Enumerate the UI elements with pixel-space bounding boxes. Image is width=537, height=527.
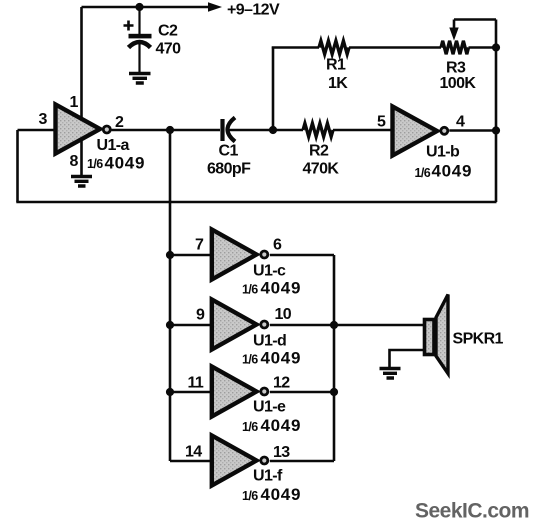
resistor R2 xyxy=(303,123,333,136)
svg-text:C1: C1 xyxy=(219,143,239,160)
wire: to U1-e input xyxy=(170,391,211,394)
capacitor C2 bottom curved plate xyxy=(129,42,151,48)
wire: to R1 xyxy=(272,46,319,49)
capacitor C1 curved plate xyxy=(228,118,236,142)
op-amp U1-d inverter triangle xyxy=(212,300,257,350)
ground: U1-a pin 8 xyxy=(71,177,92,187)
svg-text:11: 11 xyxy=(188,375,204,392)
op-amp U1-e inverter triangle xyxy=(212,367,257,417)
capacitor C2 top plate xyxy=(129,34,152,39)
svg-text:U1-b: U1-b xyxy=(426,144,460,161)
svg-text:12: 12 xyxy=(273,375,290,392)
wire: vertical up to R1 xyxy=(272,47,275,131)
svg-text:9: 9 xyxy=(196,307,205,324)
capacitor C2 lead bottom xyxy=(138,44,140,72)
svg-text:SeekIC.com: SeekIC.com xyxy=(415,500,529,523)
svg-text:U1-a: U1-a xyxy=(97,137,130,154)
wire: pin1 vertical from rail to U1-a xyxy=(80,7,83,118)
wire: bank input bus xyxy=(169,130,172,461)
wire: to U1-d input xyxy=(170,324,211,327)
svg-text:1K: 1K xyxy=(328,75,348,92)
R3 wiper arrowhead xyxy=(449,28,458,41)
wire: R2 to U1-b input xyxy=(333,129,392,132)
wire: junction to R2 xyxy=(273,129,303,132)
svg-text:10: 10 xyxy=(275,306,292,323)
svg-text:4049: 4049 xyxy=(261,349,302,368)
junction: bus / U1-d input xyxy=(166,321,174,329)
supply arrowhead xyxy=(208,2,222,11)
svg-text:U1-c: U1-c xyxy=(253,263,286,280)
svg-text:4049: 4049 xyxy=(261,485,302,504)
svg-text:1: 1 xyxy=(70,94,79,111)
wire: U1-a input from left vertical xyxy=(18,129,55,132)
junction: bus / U1-e input xyxy=(166,388,174,396)
svg-text:R2: R2 xyxy=(309,143,329,160)
junction: bus / U1-c input xyxy=(166,251,174,259)
wire: wiper top to right xyxy=(454,18,496,21)
wire: R1 to R3 xyxy=(349,46,441,49)
svg-text:1/6: 1/6 xyxy=(242,283,258,297)
svg-text:+9–12V: +9–12V xyxy=(227,2,280,19)
svg-text:1/6: 1/6 xyxy=(242,420,258,434)
speaker SPKR1 cone xyxy=(436,295,448,374)
junction: U1-b output / right vertical xyxy=(492,126,500,134)
svg-text:R3: R3 xyxy=(446,60,466,77)
svg-text:4049: 4049 xyxy=(432,162,473,181)
svg-text:U1-f: U1-f xyxy=(253,468,283,485)
wire: left vertical feedback xyxy=(16,130,19,202)
U1-e output bubble xyxy=(261,388,268,395)
R3 wiper arrow shaft xyxy=(453,20,456,31)
wire: R3 to junction xyxy=(469,46,497,49)
svg-text:C2: C2 xyxy=(158,23,178,40)
junction: top rail / C2 xyxy=(135,3,143,11)
svg-text:SPKR1: SPKR1 xyxy=(453,331,504,348)
op-amp U1-a inverter triangle xyxy=(56,105,101,154)
svg-text:R1: R1 xyxy=(326,57,346,74)
svg-text:13: 13 xyxy=(273,444,290,461)
U1-c output bubble xyxy=(261,251,268,258)
wire: bus corner to U1-f input xyxy=(170,460,211,463)
wire: speaker return to ground xyxy=(390,350,425,367)
capacitor C2 lead top xyxy=(138,7,140,34)
svg-text:470: 470 xyxy=(156,41,182,58)
wire: pin8 to ground xyxy=(80,140,83,175)
svg-text:1/6: 1/6 xyxy=(415,166,431,180)
svg-text:1/6: 1/6 xyxy=(242,489,258,503)
wire: speaker feed xyxy=(334,324,424,327)
svg-text:4049: 4049 xyxy=(261,279,302,298)
wire: right vertical xyxy=(495,48,498,203)
junction: bus / speaker feed xyxy=(330,321,338,329)
wire: bottom feedback rail xyxy=(16,201,496,204)
svg-text:7: 7 xyxy=(195,237,204,254)
svg-text:4: 4 xyxy=(456,114,465,131)
junction: output bus / U1-e xyxy=(330,388,338,396)
U1-a output bubble xyxy=(103,126,110,133)
ground: speaker xyxy=(380,369,401,379)
wire: U1-a output to C1 xyxy=(112,129,221,132)
svg-text:5: 5 xyxy=(377,114,386,131)
svg-text:680pF: 680pF xyxy=(207,161,251,178)
op-amp U1-c inverter triangle xyxy=(212,230,257,280)
wire: U1-b output to right vertical xyxy=(449,129,496,132)
wire: wiper drop to R3 end xyxy=(495,20,498,48)
wire: top supply rail xyxy=(82,6,211,9)
wire: U1-f output to bus xyxy=(270,460,334,463)
svg-text:4049: 4049 xyxy=(261,416,302,435)
svg-text:1/6: 1/6 xyxy=(87,157,103,171)
junction: R3 / right vertical xyxy=(492,43,500,51)
speaker SPKR1 driver box xyxy=(425,320,435,355)
wire: U1-e output to bus xyxy=(270,391,334,394)
U1-d output bubble xyxy=(261,321,268,328)
ground: C2 xyxy=(129,74,151,84)
wire: U1-d output to bus xyxy=(270,324,334,327)
svg-text:470K: 470K xyxy=(303,161,340,178)
U1-f output bubble xyxy=(261,457,268,464)
svg-text:8: 8 xyxy=(70,153,79,170)
op-amp U1-b inverter triangle xyxy=(393,107,438,156)
svg-text:4049: 4049 xyxy=(105,154,146,173)
svg-text:2: 2 xyxy=(115,114,124,131)
wire: C1 to junction xyxy=(229,129,273,132)
junction: output / bank bus xyxy=(166,126,174,134)
svg-text:U1-d: U1-d xyxy=(253,333,286,350)
wire: bank output bus xyxy=(333,255,336,461)
capacitor C1 left plate xyxy=(220,119,224,141)
wire: to U1-c input xyxy=(170,254,211,257)
wire: U1-c output to bus xyxy=(270,254,334,257)
U1-b output bubble xyxy=(441,127,448,134)
junction: C1 / R1 branch / R2 xyxy=(269,126,277,134)
resistor R1 xyxy=(319,41,349,54)
svg-text:1/6: 1/6 xyxy=(242,353,258,367)
resistor R3 potentiometer xyxy=(441,41,469,54)
svg-text:6: 6 xyxy=(273,237,282,254)
svg-text:U1-e: U1-e xyxy=(253,399,286,416)
svg-text:14: 14 xyxy=(185,444,202,461)
capacitor C2 plus sign xyxy=(124,21,134,31)
op-amp U1-f inverter triangle xyxy=(212,436,257,486)
svg-text:100K: 100K xyxy=(440,75,477,92)
svg-text:3: 3 xyxy=(39,111,48,128)
